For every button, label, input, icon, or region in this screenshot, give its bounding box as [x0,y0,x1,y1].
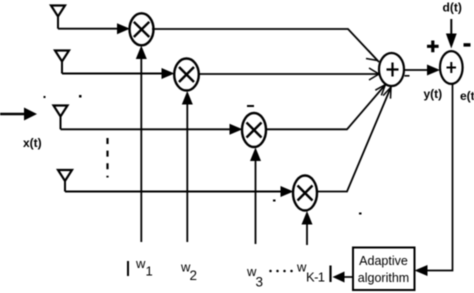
svg-text:K-1: K-1 [306,270,325,285]
svg-text:y(t): y(t) [424,87,443,101]
svg-text:3: 3 [256,275,264,290]
svg-text:algorithm: algorithm [358,271,409,285]
svg-text:2: 2 [190,268,198,283]
svg-text:Adaptive: Adaptive [359,254,408,268]
svg-text:e(t): e(t) [460,89,474,103]
svg-text:1: 1 [146,264,153,279]
svg-text:x(t): x(t) [23,136,42,150]
svg-text:w: w [135,256,146,271]
svg-text:d(t): d(t) [443,1,462,15]
